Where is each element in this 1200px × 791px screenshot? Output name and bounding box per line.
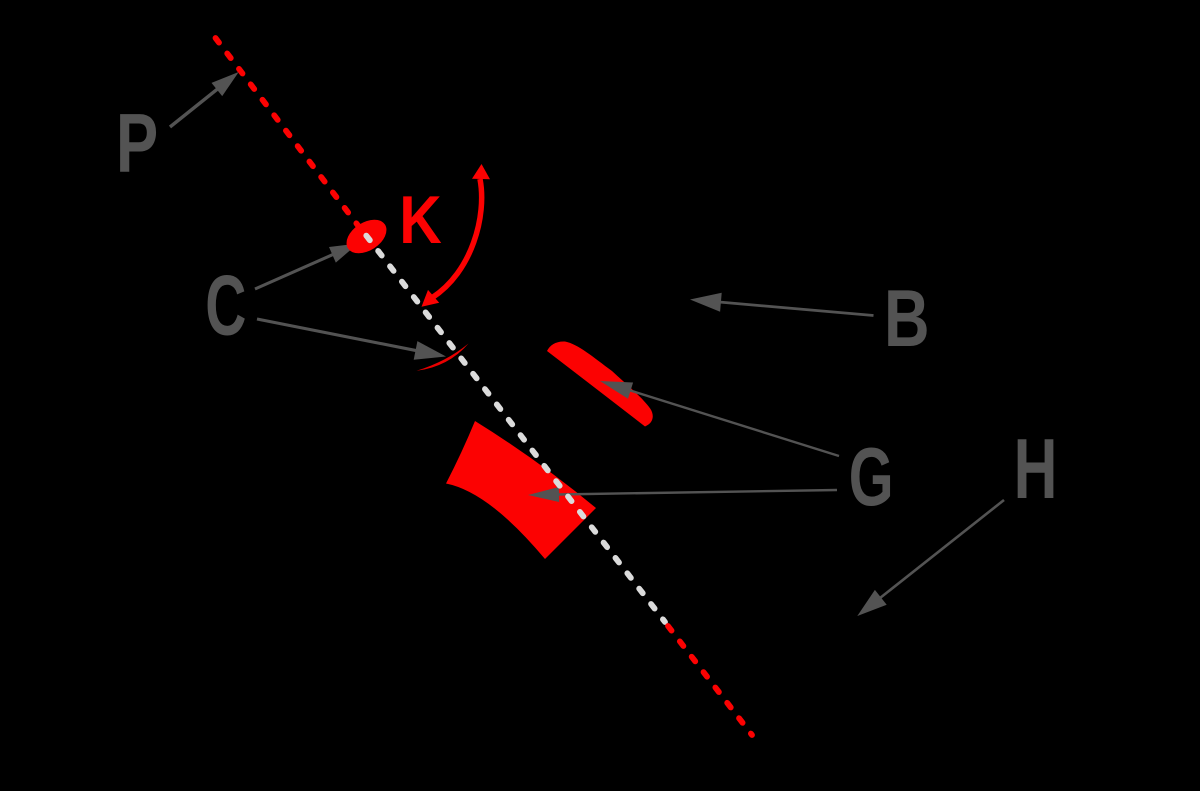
svg-text:P: P bbox=[116, 97, 158, 191]
arrow C2 head bbox=[414, 341, 446, 360]
arrow C2 shaft (C to crescent) bbox=[257, 319, 417, 351]
arrow C1 head bbox=[329, 244, 358, 263]
arrow G2 shaft (G to plank) bbox=[557, 490, 837, 495]
svg-text:B: B bbox=[884, 274, 930, 364]
arrow G1 head bbox=[600, 381, 633, 399]
arrow G2 head bbox=[528, 487, 559, 502]
arrow G1 shaft (G to lens) bbox=[629, 390, 839, 456]
ellipse marker K (red, on trajectory) bbox=[340, 213, 392, 260]
big red curved plank G2 bbox=[446, 421, 596, 559]
red curved double arrow (rotation at K): shaft arc bbox=[432, 179, 482, 298]
arrow P shaft bbox=[170, 88, 218, 127]
red arc arrowhead bottom bbox=[422, 290, 440, 307]
arrow B shaft bbox=[719, 302, 874, 316]
wire: red dashed trajectory segment (top), node P line bbox=[216, 38, 367, 236]
wire: white dashed trajectory segment (middle) bbox=[366, 236, 665, 622]
red D-shape lens G1 bbox=[547, 341, 653, 426]
wire: red dashed trajectory segment (bottom) bbox=[668, 626, 752, 735]
arrow H shaft bbox=[879, 500, 1004, 599]
arrow P head bbox=[212, 72, 239, 96]
svg-text:C: C bbox=[205, 258, 246, 353]
arrow C1 shaft (C to ellipse K) bbox=[255, 254, 334, 289]
arrow B head bbox=[690, 293, 722, 312]
red arc arrowhead top bbox=[472, 164, 490, 179]
svg-text:H: H bbox=[1014, 421, 1058, 517]
svg-text:K: K bbox=[399, 183, 442, 258]
svg-text:G: G bbox=[849, 432, 894, 523]
arrow H head bbox=[857, 590, 886, 616]
crescent C (small red arc sliver) bbox=[417, 344, 469, 371]
